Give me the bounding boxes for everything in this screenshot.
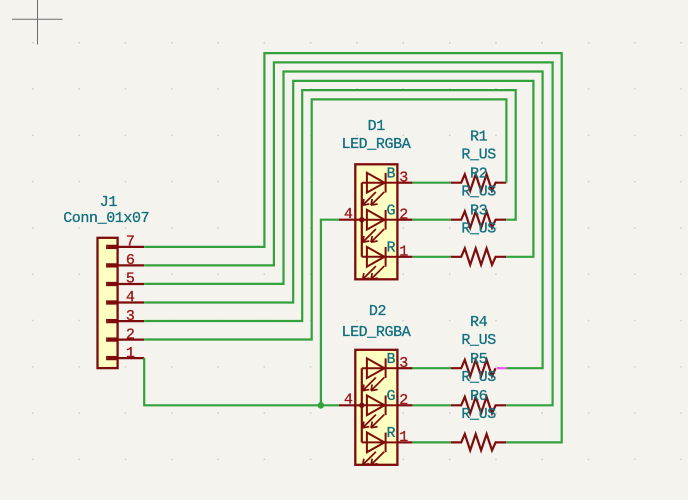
svg-text:R3: R3 xyxy=(470,203,488,220)
pin 4 of D2 xyxy=(339,392,362,409)
wire D1-3 to R1 xyxy=(412,182,450,184)
svg-text:R2: R2 xyxy=(470,165,487,182)
svg-text:G: G xyxy=(386,203,395,220)
pin 3 of J1 xyxy=(107,308,145,325)
wire D1-1 to R3 xyxy=(412,256,450,258)
wire J1-4 to R3 xyxy=(144,81,533,303)
svg-text:R_US: R_US xyxy=(461,146,496,163)
svg-text:3: 3 xyxy=(126,308,135,325)
wire D1-4 to junction xyxy=(321,220,339,406)
pin 2 of D2 xyxy=(386,388,412,409)
D1 internal anode rail xyxy=(359,183,364,257)
svg-text:3: 3 xyxy=(399,169,408,186)
svg-text:R: R xyxy=(386,425,395,442)
junction xyxy=(318,402,325,409)
svg-text:6: 6 xyxy=(126,252,135,269)
resistor R4 xyxy=(451,360,496,376)
svg-text:R1: R1 xyxy=(470,128,488,145)
LED element R of D1 xyxy=(362,247,398,279)
svg-text:G: G xyxy=(386,388,395,405)
LED element R of D2 xyxy=(362,433,398,465)
svg-text:4: 4 xyxy=(344,392,353,409)
pin 3 of D2 xyxy=(386,351,412,372)
wire J1-1 to D2-4 xyxy=(144,358,339,405)
svg-text:2: 2 xyxy=(126,326,135,343)
pin 1 of D2 xyxy=(386,425,412,446)
LED element B of D1 xyxy=(362,173,398,205)
LED element B of D2 xyxy=(362,358,398,390)
D2 internal anode rail xyxy=(359,368,364,442)
svg-text:D2: D2 xyxy=(369,303,386,320)
pin 3 of D1 xyxy=(386,166,412,187)
pin 5 of J1 xyxy=(107,271,145,288)
wire J1-3 to R2 xyxy=(144,90,516,321)
pin 2 of J1 xyxy=(107,326,145,343)
resistor R2 xyxy=(451,211,507,227)
svg-text:7: 7 xyxy=(126,234,135,251)
pin 4 of D1 xyxy=(339,206,362,223)
svg-text:4: 4 xyxy=(126,289,135,306)
resistor R6 xyxy=(451,434,507,450)
svg-text:LED_RGBA: LED_RGBA xyxy=(341,136,410,153)
svg-text:R6: R6 xyxy=(470,388,488,405)
pin 4 of J1 xyxy=(107,289,145,306)
svg-text:3: 3 xyxy=(399,355,408,372)
svg-text:2: 2 xyxy=(399,206,408,223)
resistor R3 xyxy=(451,248,507,264)
wire J1-2 to R1 xyxy=(144,99,506,339)
wire D2-2 to R5 xyxy=(412,404,450,406)
wire D2-3 to R4 xyxy=(412,367,450,369)
wire highlighted stub at R4 xyxy=(497,367,506,369)
svg-text:B: B xyxy=(386,166,395,183)
svg-text:R5: R5 xyxy=(470,351,488,368)
svg-text:5: 5 xyxy=(126,271,135,288)
svg-text:R_US: R_US xyxy=(461,332,496,349)
wire J1-7 to R6 xyxy=(144,53,562,442)
svg-text:1: 1 xyxy=(399,243,408,260)
svg-text:2: 2 xyxy=(399,392,408,409)
svg-text:Conn_01x07: Conn_01x07 xyxy=(63,210,149,227)
resistor R5 xyxy=(451,397,507,413)
pin 2 of D1 xyxy=(386,203,412,224)
LED element G of D2 xyxy=(362,395,398,427)
svg-text:1: 1 xyxy=(126,345,135,362)
wire J1-5 to R4 xyxy=(144,72,542,369)
LED element G of D1 xyxy=(362,210,398,242)
svg-text:R_US: R_US xyxy=(461,406,496,423)
svg-text:4: 4 xyxy=(344,206,353,223)
svg-text:B: B xyxy=(386,351,395,368)
pin 1 of D1 xyxy=(386,240,412,261)
svg-text:R_US: R_US xyxy=(461,221,496,238)
wire D1-2 to R2 xyxy=(412,219,450,221)
svg-text:R_US: R_US xyxy=(461,183,496,200)
wire J1-6 to R5 xyxy=(144,62,552,405)
svg-text:J1: J1 xyxy=(100,194,118,211)
resistor R1 xyxy=(451,174,507,190)
svg-text:R_US: R_US xyxy=(461,369,496,386)
connector J1 body xyxy=(98,238,118,368)
pin 1 of J1 xyxy=(107,345,145,362)
pin 7 of J1 xyxy=(107,234,145,251)
svg-text:R: R xyxy=(386,240,395,257)
pin 6 of J1 xyxy=(107,252,145,269)
wire D2-1 to R6 xyxy=(412,441,450,443)
svg-text:1: 1 xyxy=(399,429,408,446)
LED D2 body xyxy=(355,350,397,465)
svg-text:LED_RGBA: LED_RGBA xyxy=(341,324,410,341)
svg-text:R4: R4 xyxy=(470,314,488,331)
LED D1 body xyxy=(355,164,397,279)
svg-text:D1: D1 xyxy=(368,118,386,135)
